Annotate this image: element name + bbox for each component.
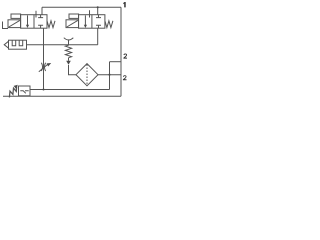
label port 2 upper (123, 54, 127, 59)
valve V2 solenoid (66, 20, 79, 28)
node junction bus/V2 (97, 6, 99, 8)
wire top bus 1 (42, 6, 121, 8)
adjustment zigzag arrow (9, 85, 17, 98)
wire bottom bus (3, 95, 121, 97)
wire gauge line bottom (30, 89, 110, 91)
label port 2 lower (123, 75, 127, 80)
wire L bracket solenoid V1 (3, 22, 9, 29)
valve V1 manual override (11, 14, 21, 18)
wire riser valve V1 to bus (41, 7, 43, 14)
silencer body (9, 40, 27, 49)
pressure gauge box (19, 86, 31, 96)
wire stub port V2 (89, 10, 91, 17)
valve V2 body (79, 15, 105, 29)
throttle (flow control) (39, 63, 51, 72)
valve V2 manual override (69, 14, 79, 18)
wire horizontal silencer line (27, 44, 98, 46)
relief spring with arc (64, 38, 74, 65)
wire riser valve V2 to bus (97, 7, 99, 14)
wire valve V1 outlet down through throttle (43, 28, 45, 89)
valve V2 spring (105, 21, 113, 28)
wire stub port V1 (35, 11, 37, 18)
valve V1 body (21, 15, 47, 29)
wire valve V2 outlet down (97, 28, 99, 45)
wire filter inlet elbow (69, 65, 77, 75)
valve V1 solenoid (8, 20, 21, 28)
wire filter outlet to port 2 (98, 74, 121, 76)
wire right vertical port2 branch (109, 62, 111, 90)
wire port 2 upper stub (110, 61, 122, 63)
node junction port2 lines (108, 74, 110, 76)
valve V1 spring (47, 21, 55, 28)
silencer triangle (4, 41, 8, 48)
label port 1 (123, 2, 125, 7)
filter diamond (76, 64, 98, 86)
wire right edge bus (120, 7, 122, 96)
node junction throttle/gauge line (42, 88, 44, 90)
